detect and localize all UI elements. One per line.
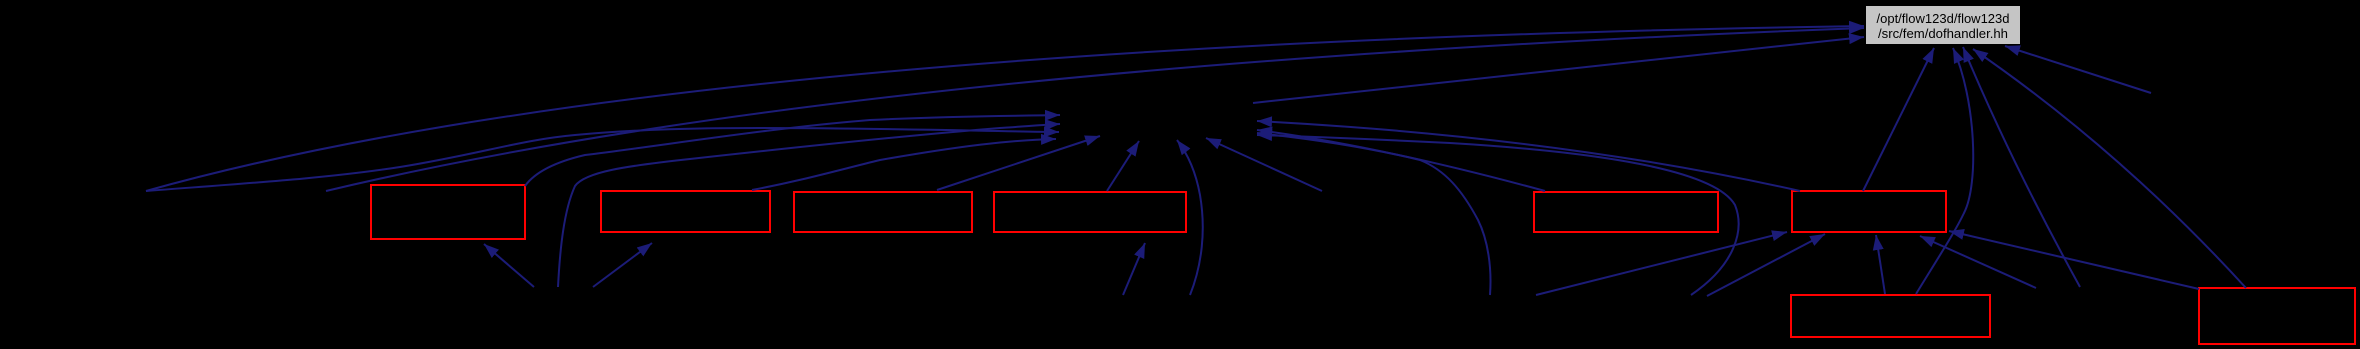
edge L1 to root [146, 26, 1864, 191]
node box6 red truncated [1792, 191, 1946, 232]
edge BN3 to box6 [1536, 232, 1787, 295]
node boxA red truncated bottom [1791, 295, 1990, 337]
node boxB red truncated bottom right [2199, 288, 2355, 344]
edge BN5 to root [1963, 47, 2080, 287]
edge L2 to root [326, 28, 1864, 191]
node box2 red truncated [601, 191, 770, 232]
svg-text:/opt/flow123d/flow123d: /opt/flow123d/flow123d [1877, 11, 2010, 26]
edge boxA to root (arc right of box6) [1916, 48, 1973, 294]
node root grey /opt/flow123d/flow123d /src/fem/dofhandler.hh [1866, 6, 2020, 44]
edge N3 to root [2005, 46, 2151, 93]
edge boxA to box6 [1876, 235, 1885, 294]
edge L1 to N1 [146, 128, 1059, 191]
edge box6 to root [1863, 48, 1934, 191]
edge box4 to N1 [1107, 141, 1139, 191]
edge box2 to N1 [752, 139, 1056, 190]
node box4 red truncated [994, 192, 1186, 232]
edge BN4 to N1 (curve right of box5) [1257, 135, 1739, 295]
edge BN5 to box6 [1920, 236, 2036, 288]
edge BN1 to box2 [593, 243, 652, 287]
edge box5 to N1 [1257, 130, 1545, 191]
node box5 red truncated [1534, 192, 1718, 232]
edge BN4 to box6 [1707, 234, 1825, 296]
edge box3 to N1 [937, 136, 1100, 190]
edge box6 to N1 [1257, 121, 1800, 191]
edge BN2 to box4 [1123, 243, 1145, 295]
node box3 red truncated [794, 192, 972, 232]
edge box1 to N1 [525, 115, 1060, 186]
edge N2 to N1 [1206, 138, 1322, 191]
svg-text:/src/fem/dofhandler.hh: /src/fem/dofhandler.hh [1878, 26, 2008, 41]
edge boxB to box6 [1949, 231, 2199, 289]
node box1 red truncated [371, 185, 525, 239]
edge BN1 to box1 [484, 244, 534, 287]
edge BN1 to N1 (curve left of box2) [558, 124, 1060, 287]
edge boxB to root [1973, 49, 2246, 288]
edge BN2 to N1 (curve right of box4) [1177, 140, 1203, 295]
edge N1 to root [1253, 37, 1864, 103]
edge BN3 to N1 (curve left of box5) [1257, 133, 1491, 295]
